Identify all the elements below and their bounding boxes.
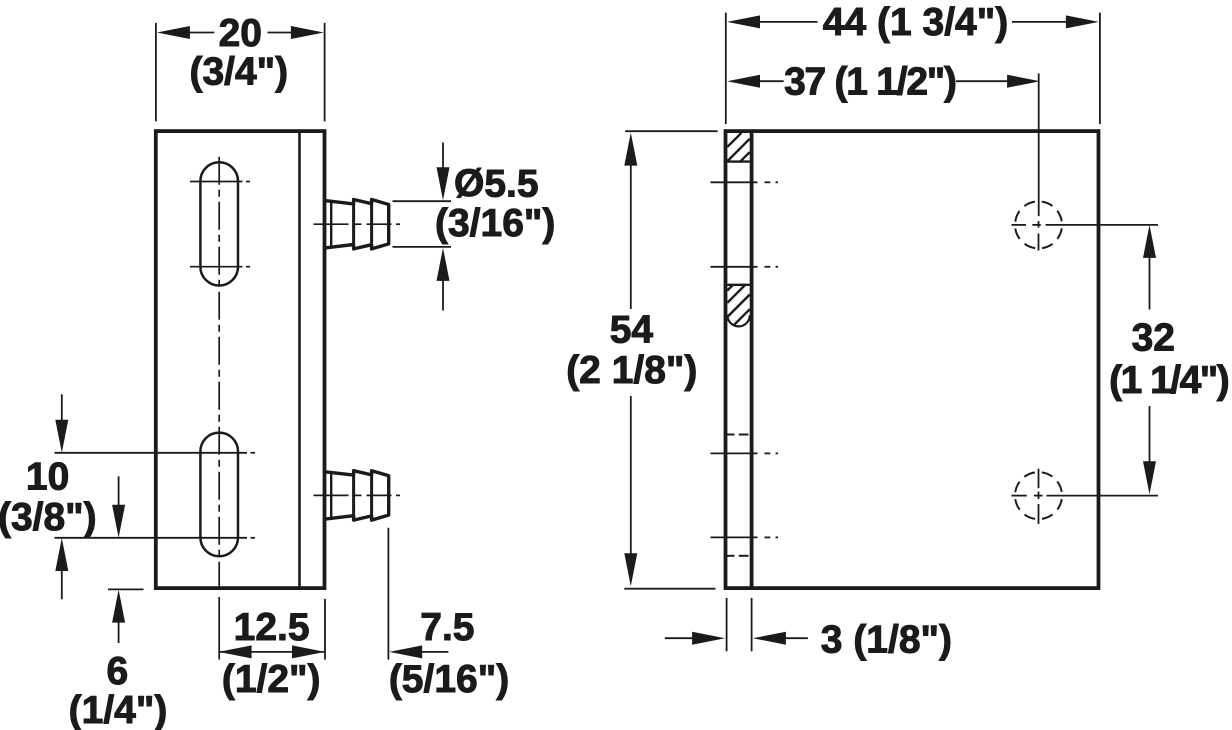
dimension 12.5 extension line <box>324 599 326 660</box>
dimension 54 line and arrows <box>624 133 637 166</box>
svg-text:7.5: 7.5 <box>420 606 474 649</box>
svg-text:3 (1/8"): 3 (1/8") <box>821 619 952 662</box>
svg-text:(1 1/4"): (1 1/4") <box>1109 359 1229 402</box>
svg-text:Ø5.5: Ø5.5 <box>454 163 539 206</box>
svg-text:(3/16"): (3/16") <box>435 202 555 245</box>
dimension 44 line and arrows <box>727 15 760 28</box>
dimension 37 line and arrows <box>727 75 760 88</box>
hatch area mid arc <box>727 315 749 326</box>
dimension 10 line upper <box>55 452 256 454</box>
top hole cross <box>1012 221 1159 251</box>
right view plate outline <box>726 131 1099 588</box>
dimension 12.5 line and arrows <box>219 651 325 653</box>
svg-text:54: 54 <box>610 309 654 352</box>
svg-text:20: 20 <box>219 12 262 55</box>
dimension 7.5 arrow <box>389 645 422 658</box>
bottom pin inner verticals <box>331 471 371 520</box>
svg-text:(5/16"): (5/16") <box>389 658 509 701</box>
dimension D5.5 arrows <box>442 143 444 169</box>
lower slot <box>200 433 238 557</box>
svg-text:(2 1/8"): (2 1/8") <box>566 349 697 392</box>
svg-text:37 (1 1/2"): 37 (1 1/2") <box>784 61 956 104</box>
dimension 10 arrows <box>61 394 63 421</box>
top pin centerline <box>314 223 401 225</box>
left view plate outline <box>156 131 325 588</box>
top pin inner verticals <box>331 200 371 249</box>
strip crossing line B <box>711 266 779 268</box>
hatch area mid <box>727 285 750 325</box>
top pin <box>325 200 389 249</box>
dimension 32 line and arrows <box>1143 225 1156 258</box>
dimension 7.5 extension line <box>387 528 389 660</box>
top hole <box>1015 201 1062 248</box>
svg-text:32: 32 <box>1132 317 1175 360</box>
svg-text:(3/4"): (3/4") <box>189 51 288 94</box>
bottom pin <box>325 471 389 520</box>
dimension 6 short line <box>108 588 144 590</box>
top hole centerline from dim 37 <box>1038 73 1040 216</box>
svg-text:44 (1 3/4"): 44 (1 3/4") <box>823 1 1008 44</box>
strip crossing line D <box>711 536 779 538</box>
upper slot centerline top <box>190 181 250 183</box>
dimension 3 extension lines <box>727 598 752 651</box>
strip hidden dash upper <box>727 434 749 436</box>
dimension 54 extension lines <box>624 131 717 589</box>
dimension D5.5 extension lines <box>393 201 452 247</box>
svg-text:(1/2"): (1/2") <box>222 658 321 701</box>
dimension 44 extension lines <box>726 13 1100 124</box>
svg-text:10: 10 <box>26 455 69 498</box>
dimension 10 line lower <box>55 537 256 539</box>
slot vertical centerline <box>218 157 220 660</box>
bottom pin centerline <box>314 494 401 496</box>
strip hidden dash lower <box>727 555 749 557</box>
dimension 20 line and arrows <box>190 32 292 34</box>
svg-text:12.5: 12.5 <box>234 606 310 649</box>
strip crossing line A <box>711 181 779 183</box>
right view inner strip line <box>750 131 754 588</box>
svg-text:(1/4"): (1/4") <box>69 689 168 730</box>
dimension 20 extension lines <box>156 23 325 121</box>
hatch area top bottom line <box>727 160 750 162</box>
dimension 6 arrows <box>118 476 120 506</box>
dimension 3 arrows <box>665 637 693 639</box>
hatch area top <box>727 133 750 163</box>
left view inner face line <box>298 131 301 588</box>
svg-text:(3/8"): (3/8") <box>0 496 97 539</box>
bottom hole <box>1015 472 1062 519</box>
svg-text:6: 6 <box>106 650 128 693</box>
strip crossing line C <box>711 452 779 454</box>
upper slot <box>200 162 238 285</box>
upper slot centerline bottom <box>190 266 250 268</box>
bottom hole cross <box>1012 469 1159 524</box>
hatch area mid top line <box>727 284 750 286</box>
